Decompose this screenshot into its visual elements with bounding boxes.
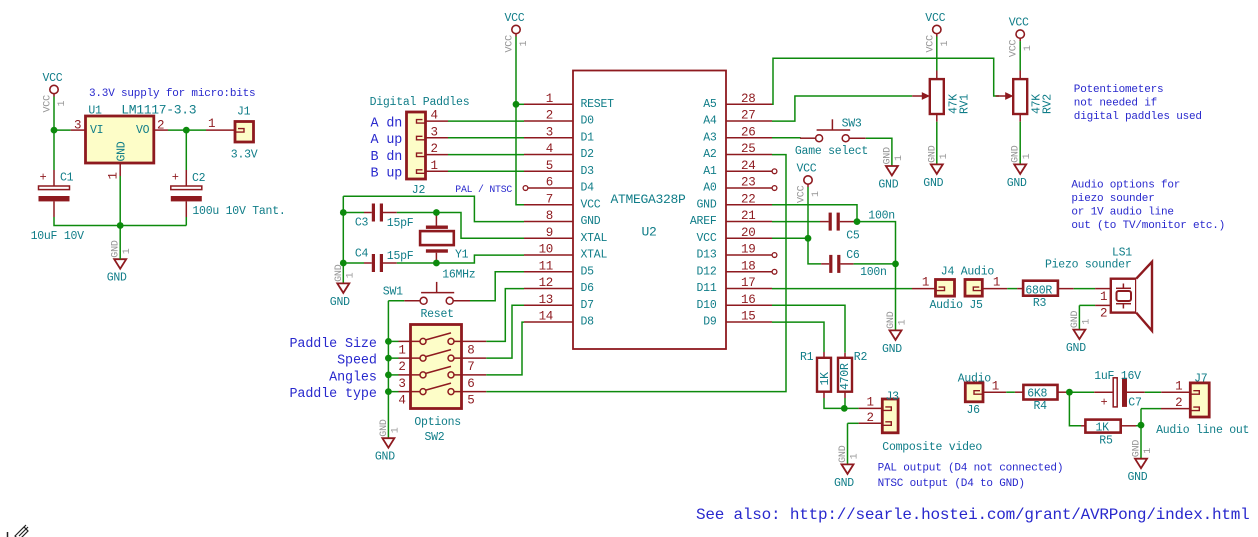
svg-text:GND: GND [1128,471,1148,484]
svg-text:GND: GND [882,147,893,165]
svg-text:A2: A2 [703,148,717,161]
U2 pin 24 stub [726,170,772,172]
svg-text:Options: Options [414,416,461,429]
svg-text:VCC: VCC [43,72,63,85]
U2 pin 15 stub [726,321,772,323]
svg-text:GND: GND [330,296,350,309]
ground GND (J3) [842,464,854,474]
junction gnd rail row 4 [385,388,392,395]
ground GND (RV1) [931,164,943,174]
resistor R5 1K [1085,420,1120,433]
wire J6 to R4 [1006,391,1015,393]
svg-text:R5: R5 [1099,434,1113,447]
wire J7 pin2 down to node [1140,409,1142,426]
svg-text:16MHz: 16MHz [442,269,475,282]
C5 right lead [840,221,857,223]
svg-text:GND: GND [1007,177,1027,190]
wire VCC down to U2 pin7 [516,37,524,205]
svg-text:6K8: 6K8 [1027,388,1047,401]
wire U2 AREF to C5 [772,221,820,223]
svg-text:1: 1 [1143,448,1154,454]
wire R3 to LS1 [1074,288,1095,290]
wire U2 D10 to R2 [772,305,845,353]
svg-text:GND: GND [834,477,854,490]
wire U2 A5 to RV2 wiper [772,58,999,104]
wire rail to C2 [120,225,186,227]
svg-text:D8: D8 [581,316,595,329]
svg-text:3: 3 [546,125,553,139]
R1 bottom lead [823,392,825,398]
ground GND (LS1) [1073,330,1085,340]
svg-text:Paddle type: Paddle type [290,387,377,402]
svg-text:15pF: 15pF [387,250,414,263]
wire node to J1 [186,129,206,131]
wire VCC to U2 pin20 [807,187,809,238]
U2 pin 21 stub [726,221,772,223]
ground GND (J7) [1135,459,1147,469]
connector J3 composite video [882,399,898,433]
svg-text:VCC: VCC [581,198,601,211]
svg-text:1: 1 [993,276,1000,290]
U2 pin 20 stub [726,237,772,239]
wire VCC node to C6 [808,238,821,264]
wire rail to SW2 pin 2 [388,357,398,359]
C4 right lead [383,262,397,264]
svg-text:J3: J3 [886,390,900,403]
junction Y1 top [433,209,440,216]
ground GND (SW2) [382,438,394,448]
R5 right lead [1121,425,1136,427]
svg-text:1: 1 [922,276,929,290]
svg-text:Audio line out: Audio line out [1156,424,1249,437]
J2 pin 4 lead [426,120,449,122]
svg-text:C7: C7 [1128,396,1141,409]
ground GND (crystal) [337,283,349,293]
capacitor C6 100n [829,255,832,273]
svg-text:C5: C5 [846,229,860,242]
svg-text:Composite video: Composite video [882,441,982,454]
resistor R4 6K8 [1023,385,1057,400]
connector J2 digital paddles [407,112,426,179]
svg-text:SW3: SW3 [842,117,862,130]
svg-text:R4: R4 [1034,400,1048,413]
svg-text:1: 1 [398,343,405,357]
svg-text:22: 22 [741,192,755,206]
svg-text:VCC: VCC [1009,39,1020,57]
SW2 lever 1 [426,333,451,340]
svg-text:1: 1 [940,41,951,47]
SW2 pin 8 lead [454,340,486,342]
wire RV1 bottom to ground [936,122,938,165]
junction gnd rail row 3 [385,372,392,379]
wire C4 to xtal bottom node [397,262,437,264]
junction C5/GND [854,218,861,225]
wire J2 B dn to U2 [448,154,524,156]
svg-text:D0: D0 [581,115,595,128]
wire SW2 pin8 to U2 D6 [486,289,524,342]
wire U2 A4 to RV1 wiper [772,96,912,121]
J3 pin 1 lead [859,407,883,409]
wire node to J3 [844,407,858,409]
wire R4 node down to R5 [1069,392,1081,426]
wire U2 pin22 GND to C5 node [772,205,857,222]
svg-text:100n: 100n [868,210,895,223]
svg-text:25: 25 [741,142,755,156]
junction VO/C2/J1 [183,127,190,134]
svg-text:2: 2 [867,411,874,425]
R2 top lead [844,353,846,358]
wire xtal bottom to U2 pin10 XTAL [436,255,524,263]
svg-text:C2: C2 [192,172,206,185]
svg-text:VI: VI [90,124,103,137]
C6 left lead [821,263,829,265]
svg-text:1: 1 [1081,319,1092,325]
U2 pin 14 stub [524,321,573,323]
U2 pin 11 stub [524,271,573,273]
svg-text:GND: GND [1066,342,1086,355]
svg-text:VCC: VCC [925,12,945,25]
svg-text:Y1: Y1 [455,249,469,262]
svg-text:C6: C6 [846,249,860,262]
wire to C4 [343,262,364,264]
U2 pin 23 stub [726,187,772,189]
svg-text:18: 18 [741,259,755,273]
svg-text:VCC: VCC [1009,17,1029,30]
svg-text:2: 2 [431,142,438,156]
J2 pin 3 lead [426,137,449,139]
C3 right lead [383,212,397,214]
svg-text:Audio J5: Audio J5 [930,299,984,312]
RV1 wiper arrow [912,95,928,97]
svg-text:1: 1 [850,453,861,459]
svg-text:2: 2 [1175,396,1182,410]
svg-text:17: 17 [741,276,755,290]
LS1 pin 1 lead [1095,288,1111,290]
svg-text:A dn: A dn [371,116,403,131]
U1 pin 2 lead [154,129,168,131]
U2 pin 6 stub (D4, n.c.) [528,187,573,189]
U2 pin 22 stub [726,204,772,206]
SW1 left lead [404,300,420,302]
svg-text:1: 1 [898,319,909,325]
ground GND (SW3) [886,166,898,176]
wire J2 B up to U2 [448,170,524,172]
junction C3 left [340,209,347,216]
svg-text:7: 7 [546,192,553,206]
svg-text:GND: GND [838,445,849,463]
svg-text:SW1: SW1 [383,285,403,298]
wire R5 to node [1136,424,1141,427]
svg-text:10: 10 [539,243,553,257]
U2 pin 26 stub [726,137,772,139]
wire SW3 to ground [866,138,892,166]
wire U1.VO to C2 node [168,129,186,131]
svg-text:27: 27 [741,109,755,123]
svg-text:2: 2 [398,360,405,374]
wire C5 node down to ground [857,222,896,331]
svg-text:out (to TV/monitor etc.): out (to TV/monitor etc.) [1071,220,1225,232]
open pin circle pin 6 [523,186,528,191]
svg-text:digital paddles used: digital paddles used [1074,111,1202,123]
svg-text:Digital Paddles: Digital Paddles [370,96,470,109]
wire node down to C1 [53,130,55,170]
svg-text:C3: C3 [355,216,369,229]
wire U2 A3 to SW3 [772,137,800,139]
svg-text:A up: A up [371,133,403,148]
J7 pin 2 lead [1161,408,1190,410]
svg-text:2: 2 [157,119,164,133]
svg-text:B dn: B dn [371,150,403,165]
U2 pin 10 stub [524,254,573,256]
svg-text:A5: A5 [703,98,717,111]
svg-text:3: 3 [398,377,405,391]
svg-text:23: 23 [741,176,755,190]
capacitor C4 15pF [372,254,375,272]
pushbutton SW3 Game select [816,135,823,142]
SW2 pin 6 lead [454,374,486,376]
svg-text:D4: D4 [581,182,595,195]
svg-text:1: 1 [1023,45,1034,51]
svg-text:D6: D6 [581,282,595,295]
svg-text:piezo sounder: piezo sounder [1071,193,1154,205]
wire rail to SW2 pin 1 [388,340,398,342]
SW3 left lead [800,137,816,139]
J2 pin 1 lead [426,170,449,172]
svg-text:C4: C4 [355,248,369,261]
svg-text:A4: A4 [703,115,717,128]
wire node down to C2 [185,130,187,170]
open pin circle pin 24 [772,169,777,174]
U2 pin 18 stub [726,271,772,273]
svg-text:1: 1 [992,380,999,394]
svg-text:J1: J1 [237,106,251,119]
svg-text:GND: GND [1011,145,1022,163]
SW3 right lead [849,137,866,139]
svg-text:R3: R3 [1033,297,1047,310]
C6 right lead [840,263,853,265]
svg-text:RESET: RESET [581,98,615,111]
ground GND (supply) [114,259,126,269]
svg-text:1: 1 [107,172,121,179]
wire rail to ground symbol [119,226,121,260]
wire node to ground [1140,425,1142,459]
svg-text:D12: D12 [697,265,717,278]
wire VCC to U1.VI node [53,97,55,131]
wire SW1 to U2 pin11 D5 [470,272,524,301]
R1 top lead [823,352,825,358]
svg-text:VCC: VCC [505,35,516,53]
U2 pin 8 stub [524,221,573,223]
capacitor C1 10uF [53,170,55,186]
svg-text:100n: 100n [860,266,887,279]
svg-text:1: 1 [345,272,356,278]
wire SW1 to gnd rail [388,300,404,302]
Y1 top lead [435,213,437,226]
svg-text:not needed if: not needed if [1074,98,1157,110]
R3 left lead [1017,288,1023,290]
U2 pin 13 stub [524,304,573,306]
Y1 bottom lead [435,253,437,263]
pushbutton SW1 Reset [420,297,427,304]
U2 pin 27 stub [726,120,772,122]
connector J5 audio jumper [965,280,982,297]
svg-text:1: 1 [811,191,822,197]
svg-text:1: 1 [546,92,553,106]
J6 pin 1 lead [983,391,1006,393]
svg-text:19: 19 [741,243,755,257]
piezo stub top [1122,284,1124,289]
svg-text:1: 1 [390,427,401,433]
wire C3 to xtal top node [397,212,437,214]
resistor R1 1K (vertical) [817,358,831,392]
capacitor C2 100u [185,170,187,186]
wire J2 A up to U2 [448,137,524,139]
U2 pin 7 stub [524,204,573,206]
svg-text:J4 Audio: J4 Audio [941,266,995,279]
RV2 top lead [1019,71,1021,80]
svg-text:3.3V supply for micro:bits: 3.3V supply for micro:bits [89,88,255,100]
wire VCC to RV1 top [936,37,938,71]
svg-text:R2: R2 [854,351,868,364]
svg-text:D13: D13 [697,249,717,262]
svg-text:A0: A0 [703,182,717,195]
wire R2 to video node [844,398,846,408]
wire C3/C4 ground rail [342,196,344,283]
svg-text:Game select: Game select [795,145,868,158]
svg-text:GND: GND [697,198,717,211]
svg-text:U1: U1 [88,104,102,117]
svg-text:+: + [40,171,47,185]
svg-text:1K: 1K [1096,422,1110,435]
U2 pin 3 stub [524,137,573,139]
svg-text:1: 1 [939,153,950,159]
wire U2 D11 to J4 [772,288,912,290]
U2 pin 2 stub [524,120,573,122]
svg-text:NTSC output (D4 to GND): NTSC output (D4 to GND) [878,478,1025,490]
svg-text:1: 1 [431,159,438,173]
svg-text:1: 1 [1022,153,1033,159]
svg-text:D5: D5 [581,265,595,278]
svg-text:GND: GND [581,215,601,228]
U2 pin 25 stub [726,154,772,156]
junction video out [841,405,848,412]
capacitor C3 15pF [372,204,375,222]
wire VCC to RV2 top [1019,41,1021,70]
svg-text:1: 1 [1175,380,1182,394]
svg-text:U2: U2 [642,225,657,240]
U2 pin 16 stub [726,304,772,306]
svg-text:14: 14 [539,310,553,324]
wire J3 pin2 [848,422,859,424]
svg-text:C1: C1 [60,172,74,185]
SW2 pin 1 lead [399,340,420,342]
svg-text:D9: D9 [703,316,717,329]
C4 left lead [364,262,372,264]
svg-text:3: 3 [431,125,438,139]
svg-text:B up: B up [371,167,403,182]
svg-text:28: 28 [741,92,755,106]
junction gnd rail row 1 [385,338,392,345]
svg-text:Angles: Angles [329,370,377,385]
svg-text:GND: GND [107,272,127,285]
open pin circle pin 18 [772,269,777,274]
svg-text:A1: A1 [703,165,717,178]
connector J1 3.3V out [235,122,254,143]
svg-text:2: 2 [1100,307,1107,321]
svg-text:2: 2 [546,109,553,123]
svg-text:D7: D7 [581,299,594,312]
svg-text:4: 4 [546,142,553,156]
svg-text:+: + [172,171,179,185]
capacitor C5 100n [829,213,832,231]
svg-text:4: 4 [398,394,405,408]
wire rail to SW2 pin 4 [388,391,398,393]
svg-text:PAL output (D4 not connected): PAL output (D4 not connected) [878,462,1064,474]
wire to U2 pin20 VCC [772,237,808,239]
svg-text:LM1117-3.3: LM1117-3.3 [121,102,196,117]
svg-text:GND: GND [927,145,938,163]
DIP switch SW2 Options body [411,325,462,409]
svg-text:GND: GND [1070,310,1081,328]
wire SW2 pin7 to U2 D7 [486,305,524,358]
svg-text:RV1: RV1 [958,94,971,114]
J5 pin 1 lead [982,288,1007,290]
wire LS1 pin2 [1079,304,1095,306]
wire C1 to ground rail [54,217,120,226]
U2 pin 4 stub [524,154,573,156]
svg-text:GND: GND [379,419,390,437]
wire U1 GND to rail [119,176,121,226]
svg-text:D2: D2 [581,148,595,161]
svg-text:100u 10V Tant.: 100u 10V Tant. [192,205,285,218]
RV1 top lead [936,71,938,80]
resistor R2 470R (vertical) [838,358,852,392]
wire J5 to R3 [1007,288,1017,290]
wire J3 pin2 to ground [847,423,849,464]
svg-text:GND: GND [375,451,395,464]
wire xtal-gnd rail to U2 pin8 GND [343,196,524,221]
svg-text:5: 5 [467,394,474,408]
svg-text:6: 6 [467,377,474,391]
wire U2 D9 to R1 [772,322,824,352]
svg-text:RV2: RV2 [1042,94,1055,114]
svg-text:VCC: VCC [797,185,808,203]
svg-text:1K: 1K [819,372,832,386]
svg-text:15pF: 15pF [387,217,414,230]
U2 pin 5 stub [524,170,573,172]
wire node to U1 pin3 [54,129,71,131]
svg-text:GND: GND [882,343,902,356]
svg-text:12: 12 [539,276,553,290]
svg-text:VCC: VCC [697,232,717,245]
svg-text:1: 1 [208,117,215,131]
wire rail to SW2 pin 3 [388,374,398,376]
SW1 right lead [453,300,470,302]
wire node to C7 [1069,391,1094,393]
svg-text:680R: 680R [1025,285,1052,298]
svg-text:R1: R1 [800,351,814,364]
wire SW2 pin5 to U2 A2 [486,155,786,392]
J4 pin 1 lead [912,288,936,290]
svg-text:PAL / NTSC: PAL / NTSC [455,184,512,195]
SW2 pin 4 lead [399,391,420,393]
C3 left lead [364,212,372,214]
SW2 pin 7 lead [454,357,486,359]
wire xtal top to U2 pin9 XTAL [436,213,524,239]
wire R1 to video node [824,398,844,408]
svg-text:Speed: Speed [337,354,377,369]
svg-text:7: 7 [467,360,474,374]
